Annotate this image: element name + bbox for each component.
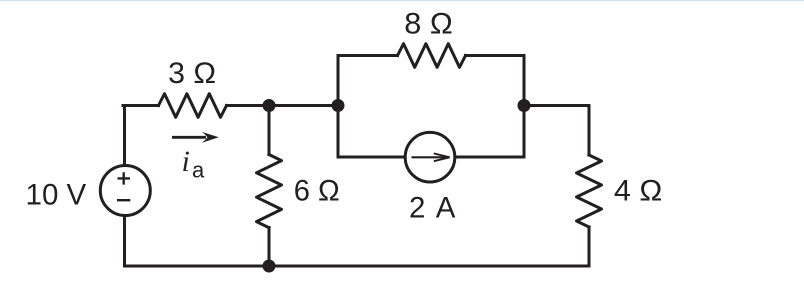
node dot: junction R1/6-ohm xyxy=(263,99,276,112)
top rule xyxy=(0,0,804,1)
wire: top-left horizontal to 3-ohm resistor xyxy=(123,104,159,107)
wire: box left vertical xyxy=(337,56,340,158)
wire: node line from R1 to box left node xyxy=(227,104,339,107)
resistor R1 3 ohm xyxy=(159,94,227,118)
svg-text:8 Ω: 8 Ω xyxy=(404,7,453,40)
svg-text:6 Ω: 6 Ω xyxy=(294,175,340,208)
svg-text:2: 2 xyxy=(409,191,425,224)
resistor R2 8 ohm xyxy=(398,44,466,68)
wire: bottom horizontal xyxy=(125,265,590,268)
voltage source V1 circle xyxy=(100,166,150,216)
voltage source plus sign xyxy=(118,172,131,184)
node dot: box right xyxy=(518,99,531,112)
wire: box bottom left to current source xyxy=(338,156,405,159)
current arrow i_a xyxy=(172,132,219,143)
wire: right node line to 4-ohm branch xyxy=(524,106,589,156)
voltage source minus sign xyxy=(117,199,130,201)
current source I1 arrow xyxy=(412,153,450,161)
wire: box top horizontal left xyxy=(338,54,398,57)
node dot: box left xyxy=(332,99,345,112)
wire: box right vertical xyxy=(523,56,526,158)
svg-text:a: a xyxy=(192,157,205,182)
wire: left vertical from voltage source to bottom xyxy=(123,216,126,267)
resistor R4 4 ohm xyxy=(577,155,602,227)
wire: 6-ohm branch top xyxy=(268,106,271,155)
wire: 6-ohm branch bottom xyxy=(268,228,271,267)
wire: left vertical from top node to voltage source xyxy=(123,106,126,166)
svg-text:i: i xyxy=(182,145,190,178)
resistor R3 6 ohm xyxy=(257,155,282,228)
svg-text:3 Ω: 3 Ω xyxy=(168,57,216,90)
wire: box top horizontal right xyxy=(466,54,525,57)
svg-text:A: A xyxy=(436,191,456,224)
wire: box bottom right from current source xyxy=(455,156,524,159)
current source I1 circle xyxy=(405,132,455,182)
wire: 4-ohm branch bottom xyxy=(588,227,591,266)
node dot: bottom junction xyxy=(263,260,276,273)
svg-text:10 V: 10 V xyxy=(26,179,87,212)
svg-text:4 Ω: 4 Ω xyxy=(614,175,663,208)
